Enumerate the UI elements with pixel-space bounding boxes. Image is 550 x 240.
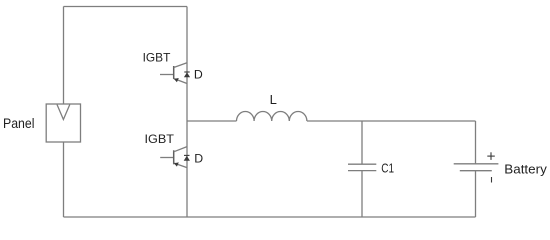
wire igbt leg vertical bbox=[186, 7, 188, 218]
capacitor C1 bottom plate bbox=[348, 170, 376, 172]
wire panel bottom to ground bus bbox=[63, 142, 65, 217]
capacitor C1 top plate bbox=[348, 163, 376, 165]
wire top bus bbox=[64, 6, 188, 8]
igbt Q2 gate lead bbox=[160, 157, 174, 159]
svg-text:Battery: Battery bbox=[504, 162, 547, 177]
svg-text:Panel: Panel bbox=[3, 115, 35, 131]
battery minus tick bbox=[491, 177, 493, 183]
svg-text:IGBT: IGBT bbox=[143, 51, 171, 65]
wire bottom bus bbox=[64, 216, 476, 218]
igbt Q1 gate bar bbox=[173, 66, 175, 79]
diode D1 cathode bar bbox=[184, 71, 189, 73]
panel PV1 box bbox=[46, 104, 80, 142]
igbt Q1 emitter diagonal bbox=[174, 79, 187, 84]
diode D1 triangle bbox=[184, 72, 190, 77]
igbt Q2 gate bar bbox=[173, 150, 175, 164]
battery plus sign vertical bbox=[490, 152, 492, 160]
wire battery top lead bbox=[475, 121, 477, 164]
wire C1 bottom lead bbox=[361, 171, 363, 217]
wire battery bottom lead bbox=[475, 171, 477, 217]
panel arrow V bbox=[57, 105, 70, 120]
battery plus sign horizontal bbox=[487, 155, 495, 157]
wire left drop to panel bbox=[63, 7, 65, 105]
igbt Q2 emitter diagonal bbox=[174, 163, 187, 168]
diode D2 cathode bar bbox=[184, 154, 190, 156]
igbt Q2 collector diagonal bbox=[174, 147, 187, 152]
inductor L bbox=[237, 111, 307, 121]
svg-text:C1: C1 bbox=[381, 161, 394, 176]
igbt Q1 gate lead bbox=[160, 74, 174, 76]
wire node mid to inductor bbox=[187, 120, 237, 122]
battery negative plate bbox=[460, 170, 492, 172]
igbt Q1 emitter arrow bbox=[174, 78, 179, 82]
igbt Q2 emitter arrow bbox=[174, 162, 179, 166]
wire inductor to battery top bbox=[307, 120, 476, 122]
wire C1 top lead bbox=[361, 121, 363, 164]
diode D2 triangle bbox=[184, 156, 190, 161]
svg-text:IGBT: IGBT bbox=[145, 132, 175, 146]
igbt Q1 collector diagonal bbox=[174, 63, 187, 68]
svg-text:D: D bbox=[194, 151, 203, 165]
svg-text:L: L bbox=[270, 92, 277, 107]
svg-text:D: D bbox=[194, 67, 203, 81]
battery positive plate bbox=[454, 163, 499, 165]
